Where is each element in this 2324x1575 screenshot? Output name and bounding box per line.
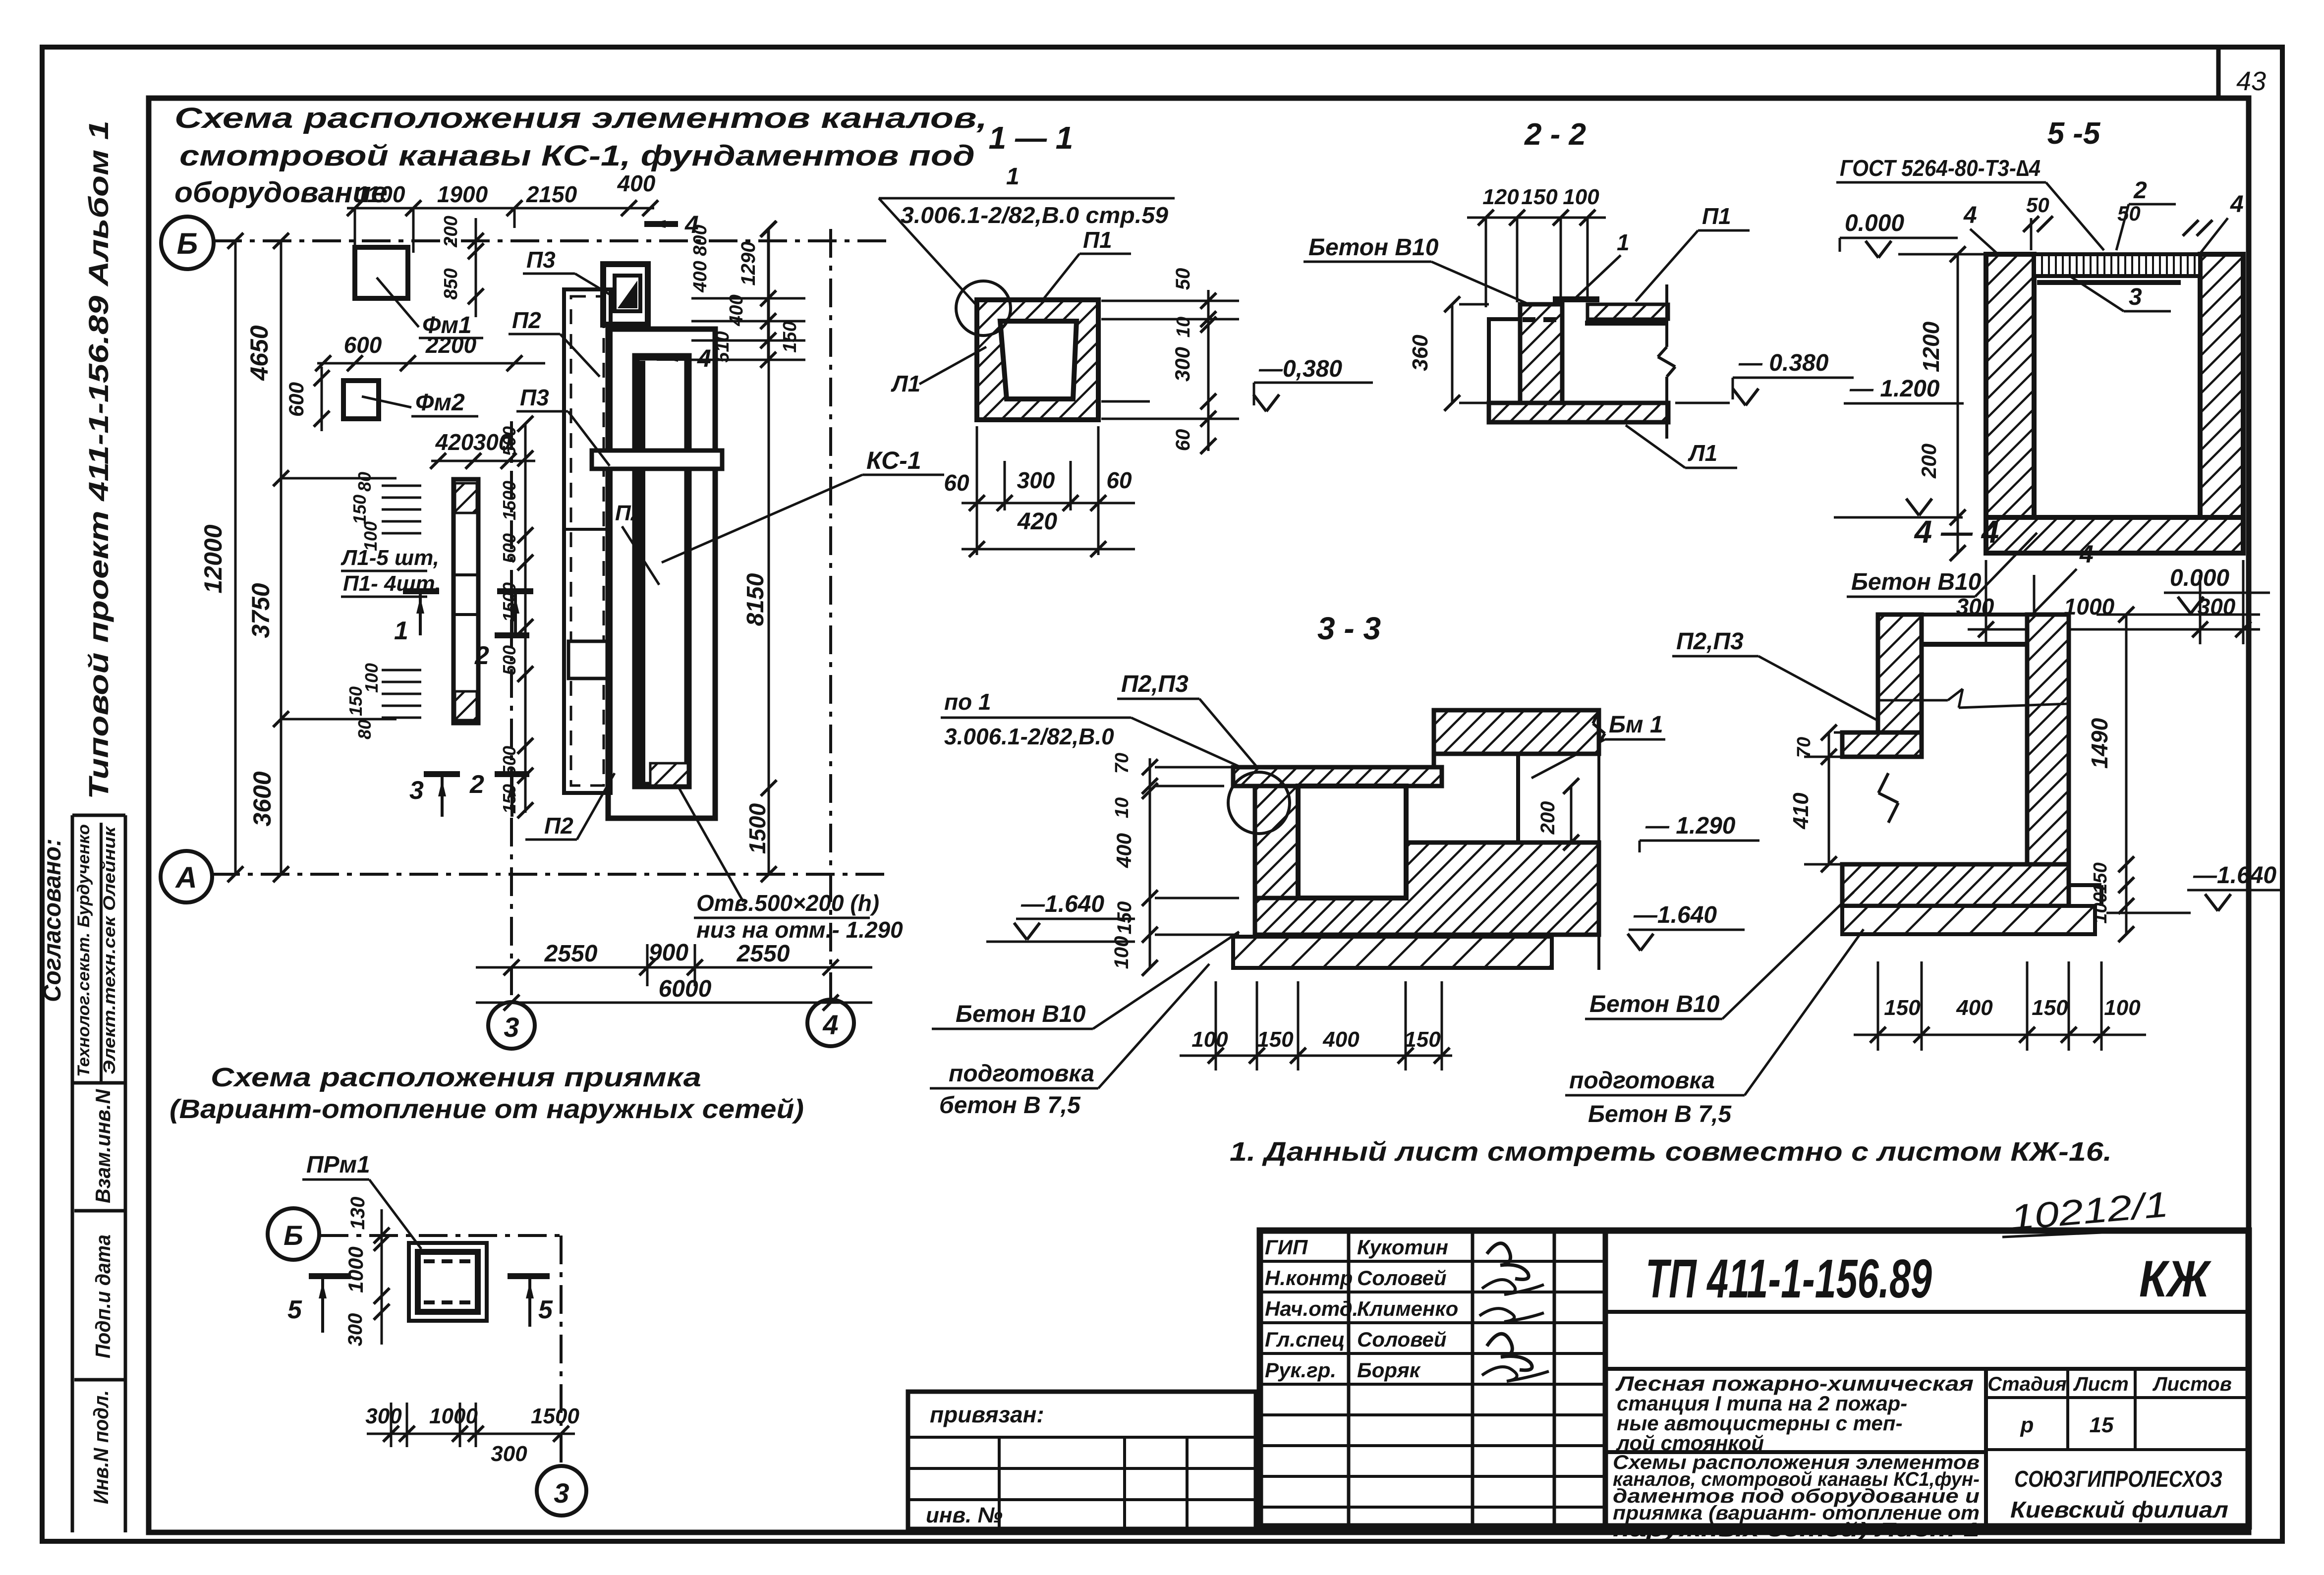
- section mark 1 right: [497, 588, 533, 594]
- label Фм2: [362, 396, 411, 407]
- svg-text:1: 1: [1006, 164, 1020, 190]
- stamp line under Лесная: [1605, 1450, 1986, 1454]
- svg-text:1500: 1500: [499, 481, 519, 520]
- priyamok axis 3 circle: [537, 1466, 586, 1516]
- svg-text:Фм2: Фм2: [415, 390, 465, 416]
- pit П3 square: [603, 264, 648, 325]
- priyamok pit: [409, 1243, 487, 1321]
- section 4-4 top slab line: [1922, 642, 2027, 647]
- svg-text:100: 100: [2104, 996, 2141, 1020]
- top dim chain line: [347, 207, 654, 210]
- svg-text:510: 510: [712, 331, 733, 362]
- svg-text:300: 300: [365, 1404, 402, 1428]
- svg-text:3: 3: [2129, 284, 2142, 310]
- section mark 2 lower: [495, 771, 529, 777]
- svg-text:300: 300: [344, 1313, 366, 1347]
- section 4-4 base: [1842, 906, 2095, 934]
- svg-text:Б: Б: [177, 227, 198, 260]
- section 4-4 left wall: [1878, 615, 1922, 736]
- section mark 3: [424, 771, 460, 777]
- svg-text:2150: 2150: [526, 181, 577, 207]
- svg-text:50: 50: [1172, 268, 1194, 290]
- section mark 2 upper: [495, 632, 529, 638]
- svg-text:Отв.500×200 (h): Отв.500×200 (h): [696, 890, 879, 916]
- svg-text:наружных сетей) Лист 1: наружных сетей) Лист 1: [1613, 1519, 1980, 1541]
- svg-text:10: 10: [1173, 317, 1194, 337]
- stamp signature verticals: [1347, 1231, 1351, 1526]
- priyamok section marks 5: [309, 1273, 351, 1279]
- svg-text:3600: 3600: [248, 771, 276, 826]
- svg-text:1490: 1490: [2087, 718, 2112, 769]
- axis А line: [211, 873, 887, 876]
- svg-text:—0,380: —0,380: [1258, 356, 1342, 382]
- section 2-2 bottom slab: [1489, 403, 1668, 422]
- svg-text:4650: 4650: [245, 325, 273, 381]
- svg-text:600: 600: [344, 332, 382, 358]
- section 1-1 walls: [977, 300, 1098, 420]
- svg-text:12000: 12000: [199, 524, 227, 593]
- stamp vertical 4007: [1984, 1369, 1988, 1526]
- dim line 12000: [234, 241, 237, 874]
- axis 4 circle: [807, 1000, 854, 1046]
- svg-text:300: 300: [491, 1442, 527, 1466]
- svg-text:4: 4: [2079, 540, 2094, 568]
- svg-text:Киевский филиал: Киевский филиал: [2010, 1497, 2228, 1522]
- section 3-3 base: [1233, 937, 1552, 968]
- svg-text:Технолог.секьт. Бурдученко: Технолог.секьт. Бурдученко: [74, 824, 93, 1077]
- foundation Фм1: [355, 247, 408, 298]
- right dim cluster extension lines: [691, 297, 805, 300]
- svg-text:П2: П2: [544, 813, 573, 839]
- dim chain 600 2200: [317, 362, 545, 365]
- svg-text:0.000: 0.000: [2170, 565, 2229, 591]
- dims left 3-3: [1149, 758, 1151, 968]
- svg-text:Бетон В 7,5: Бетон В 7,5: [1588, 1101, 1732, 1127]
- svg-text:П1: П1: [1702, 203, 1731, 229]
- svg-text:300: 300: [1171, 347, 1194, 382]
- mesh marks upper: [382, 485, 421, 487]
- svg-text:1500: 1500: [744, 803, 770, 854]
- section 4-4 right wall: [2027, 615, 2069, 864]
- section 2-2 break line: [1665, 284, 1668, 347]
- svg-text:Инв.N подл.: Инв.N подл.: [89, 1390, 113, 1504]
- section 3-3 detail circle: [1228, 772, 1290, 834]
- stamp row Р 15: [1986, 1448, 2249, 1451]
- svg-text:150: 150: [1257, 1027, 1294, 1052]
- svg-text:10: 10: [1112, 797, 1133, 818]
- svg-text:70: 70: [1794, 737, 1814, 758]
- svg-text:1500: 1500: [531, 1404, 579, 1428]
- svg-text:1100: 1100: [356, 181, 405, 207]
- svg-text:2550: 2550: [737, 941, 790, 967]
- svg-text:Бетон В10: Бетон В10: [1308, 234, 1439, 261]
- section 5-5 bottom slab: [1986, 517, 2243, 553]
- svg-text:200: 200: [1537, 801, 1559, 835]
- svg-text:Лист: Лист: [2073, 1373, 2129, 1395]
- dims 120 150 100 2-2: [1467, 217, 1606, 219]
- svg-text:Взам.инв.N: Взам.инв.N: [91, 1088, 114, 1203]
- svg-text:Бетон В10: Бетон В10: [956, 1001, 1086, 1027]
- dim 200 850 column: [475, 218, 477, 317]
- svg-text:4 — 4: 4 — 4: [1914, 514, 1999, 550]
- svg-text:Л1: Л1: [1688, 440, 1717, 466]
- svg-text:Типовой проект 411-1-156.89 Ал: Типовой проект 411-1-156.89 Альбом 1: [83, 120, 114, 799]
- svg-text:3: 3: [409, 776, 424, 805]
- section 4-4 break zigzag: [1878, 699, 1948, 702]
- svg-text:инв. №: инв. №: [926, 1503, 1003, 1527]
- svg-text:3 - 3: 3 - 3: [1317, 611, 1381, 646]
- svg-text:150: 150: [780, 321, 800, 352]
- svg-text:Подп.и дата: Подп.и дата: [91, 1235, 114, 1358]
- svg-text:5: 5: [538, 1295, 553, 1324]
- svg-text:Н.контр: Н.контр: [1265, 1266, 1353, 1290]
- svg-text:— 1.290: — 1.290: [1645, 813, 1736, 839]
- svg-text:ПРм1: ПРм1: [306, 1152, 370, 1178]
- svg-text:Бм 1: Бм 1: [1609, 712, 1663, 738]
- stamp line under ТП row: [1605, 1310, 2249, 1314]
- svg-text:1000: 1000: [429, 1404, 478, 1428]
- section mark 1 left: [403, 588, 439, 594]
- svg-text:8150: 8150: [742, 573, 769, 626]
- svg-text:1 — 1: 1 — 1: [989, 120, 1074, 156]
- svg-text:3.006.1-2/82,В.0 стр.59: 3.006.1-2/82,В.0 стр.59: [901, 202, 1168, 228]
- bottom dim chain 2550 900 2550: [476, 966, 872, 969]
- svg-text:410: 410: [1789, 792, 1813, 830]
- svg-text:Нач.отд.: Нач.отд.: [1265, 1297, 1358, 1320]
- svg-text:СОЮЗГИПРОЛЕСХОЗ: СОЮЗГИПРОЛЕСХОЗ: [2014, 1466, 2222, 1492]
- priyamok axis Б line: [320, 1234, 561, 1237]
- svg-text:П2: П2: [615, 501, 643, 525]
- section mark 4 lower: [657, 355, 690, 361]
- section 3-3 top slab: [1233, 767, 1442, 786]
- svg-text:Бетон В10: Бетон В10: [1851, 569, 1982, 595]
- svg-text:Элект.техн.сек Олейник: Элект.техн.сек Олейник: [100, 826, 119, 1074]
- privyazan rows: [908, 1436, 1256, 1439]
- stamp signatures scribbles: [1487, 1243, 1529, 1280]
- dim 1200 200 5-5: [1957, 254, 1959, 553]
- svg-text:Л1-5 шт,: Л1-5 шт,: [340, 546, 439, 570]
- svg-text:(Вариант-отопление от наружных: (Вариант-отопление от наружных сетей): [170, 1094, 804, 1124]
- svg-text:900: 900: [649, 940, 688, 966]
- svg-text:2: 2: [469, 770, 484, 799]
- svg-text:бетон В 7,5: бетон В 7,5: [939, 1092, 1081, 1119]
- svg-text:500: 500: [499, 746, 519, 776]
- svg-text:2550: 2550: [544, 941, 598, 967]
- sheet number box: [2216, 47, 2221, 98]
- stamp outer box: [1260, 1231, 2249, 1526]
- svg-text:Схема расположения элемент: Схема расположения элементов каналов,: [174, 102, 987, 134]
- svg-text:400: 400: [726, 294, 747, 326]
- svg-text:2: 2: [474, 641, 489, 670]
- svg-text:400: 400: [1956, 996, 1993, 1020]
- svg-text:1000: 1000: [344, 1246, 367, 1293]
- svg-text:ГОСТ 5264-80-Т3-∆4: ГОСТ 5264-80-Т3-∆4: [1840, 155, 2041, 181]
- margin table lines: [71, 815, 74, 1532]
- svg-text:подготовка: подготовка: [1569, 1068, 1715, 1094]
- section 3-3 right upper band: [1434, 710, 1599, 754]
- privyazan box: [908, 1392, 1256, 1529]
- ladder Л1 strip: [453, 479, 478, 723]
- svg-text:150: 150: [2090, 862, 2111, 894]
- svg-text:150: 150: [1404, 1027, 1441, 1052]
- svg-text:П1: П1: [1083, 227, 1112, 253]
- svg-text:низ на отм.- 1.290: низ на отм.- 1.290: [696, 917, 903, 943]
- svg-text:П3: П3: [526, 247, 556, 273]
- svg-text:420: 420: [1017, 508, 1057, 535]
- svg-text:60: 60: [1106, 467, 1132, 493]
- svg-text:Гл.спец: Гл.спец: [1265, 1328, 1345, 1351]
- svg-text:Л1: Л1: [891, 371, 920, 396]
- svg-text:150: 150: [349, 495, 370, 524]
- svg-text:150: 150: [1521, 185, 1558, 209]
- section 3-3 lower mass: [1255, 843, 1599, 935]
- svg-text:П2: П2: [512, 307, 541, 333]
- svg-text:—1.640: —1.640: [1633, 902, 1717, 928]
- section 3-3 channel void: [1298, 786, 1406, 898]
- svg-text:50: 50: [2117, 202, 2141, 225]
- axis 4 line: [829, 229, 832, 1000]
- section 4-4 bottom dims: [1854, 1034, 2146, 1036]
- svg-text:400: 400: [1322, 1027, 1360, 1052]
- svg-text:Бетон В10: Бетон В10: [1589, 991, 1720, 1017]
- axis 3 line: [510, 421, 513, 1003]
- dims left 4-4: [1828, 732, 1830, 864]
- svg-text:420: 420: [435, 429, 474, 455]
- svg-text:4: 4: [697, 344, 711, 372]
- svg-text:3: 3: [504, 1012, 519, 1043]
- section 1-1 bottom dims: [962, 502, 1135, 505]
- svg-text:1200: 1200: [1918, 321, 1944, 372]
- axis Б line: [213, 239, 887, 242]
- svg-text:подготовка: подготовка: [949, 1061, 1094, 1087]
- section 1-1 top slab: [979, 301, 1094, 319]
- svg-text:3750: 3750: [247, 583, 275, 638]
- axis 3 circle: [488, 1002, 535, 1049]
- svg-text:— 0.380: — 0.380: [1738, 350, 1829, 376]
- section 3-3 right wall lines: [1516, 754, 1520, 843]
- svg-text:Клименко: Клименко: [1357, 1297, 1458, 1320]
- svg-text:—1.640: —1.640: [1020, 891, 1104, 917]
- svg-text:Рук.гр.: Рук.гр.: [1265, 1358, 1336, 1382]
- svg-text:4: 4: [822, 1009, 838, 1040]
- dims right 3-3: [1570, 786, 1573, 843]
- svg-text:2 - 2: 2 - 2: [1524, 117, 1586, 152]
- crossing bar: [592, 450, 722, 469]
- svg-text:Стадия: Стадия: [1987, 1373, 2066, 1395]
- label Фм1: [377, 278, 419, 327]
- svg-text:130: 130: [347, 1197, 369, 1230]
- section 3-3 break right: [1593, 710, 1599, 724]
- svg-text:А: А: [174, 861, 197, 894]
- svg-text:500: 500: [499, 426, 519, 456]
- svg-text:6000: 6000: [659, 976, 712, 1002]
- dim 600 vertical: [321, 367, 323, 431]
- priyamok axis Б circle: [268, 1208, 319, 1260]
- svg-text:100: 100: [1563, 185, 1599, 209]
- dim chain 500 1500 x1060: [524, 424, 527, 813]
- svg-text:— 1.200: — 1.200: [1849, 376, 1940, 402]
- section 4-4 bottom slab: [1842, 864, 2069, 906]
- section 5-5 right wall: [2200, 254, 2243, 517]
- svg-text:500: 500: [499, 533, 519, 563]
- svg-text:150: 150: [499, 784, 519, 814]
- svg-text:5 -5: 5 -5: [2047, 116, 2101, 151]
- foundation Фм2: [343, 381, 379, 419]
- section 5-5 left wall: [1986, 254, 2034, 517]
- svg-text:200: 200: [441, 216, 461, 247]
- svg-text:600: 600: [284, 382, 308, 417]
- stamp header Стадия Лист Листов: [1986, 1396, 2249, 1399]
- svg-text:100: 100: [360, 521, 381, 551]
- svg-text:р: р: [2020, 1413, 2034, 1437]
- svg-text:КЖ: КЖ: [2139, 1250, 2212, 1308]
- svg-text:3.006.1-2/82,В.0: 3.006.1-2/82,В.0: [944, 724, 1114, 749]
- canal outer wall: [608, 329, 715, 818]
- svg-text:0.000: 0.000: [1845, 210, 1904, 236]
- section 2-2 plate П1: [1587, 304, 1668, 319]
- svg-text:300: 300: [1017, 467, 1055, 493]
- priyamok vertical dims: [381, 1209, 383, 1345]
- mesh marks lower: [382, 669, 421, 672]
- svg-text:2200: 2200: [425, 332, 477, 358]
- svg-text:Схема расположения приямка: Схема расположения приямка: [211, 1063, 701, 1092]
- svg-text:360: 360: [1408, 335, 1432, 371]
- privyazan columns: [998, 1437, 1001, 1529]
- svg-text:200: 200: [1917, 444, 1940, 479]
- svg-text:15: 15: [2090, 1413, 2114, 1437]
- svg-text:Кукотин: Кукотин: [1357, 1236, 1448, 1259]
- priyamok bottom dims: [367, 1433, 575, 1435]
- axis Б circle: [161, 217, 214, 269]
- svg-text:5: 5: [287, 1295, 302, 1324]
- svg-text:150: 150: [2032, 996, 2068, 1020]
- svg-text:150: 150: [1884, 996, 1921, 1020]
- svg-text:П3: П3: [520, 385, 549, 410]
- section mark 4 upper: [644, 221, 678, 227]
- section 2-2 hatched column: [1520, 304, 1562, 403]
- dim 6000: [476, 1002, 872, 1004]
- svg-text:1500: 1500: [499, 582, 519, 622]
- svg-text:100: 100: [1191, 1027, 1228, 1052]
- svg-text:2: 2: [2133, 177, 2147, 204]
- canal trench bottom hatch: [650, 763, 688, 786]
- section 1-1 detail circle: [956, 281, 1011, 336]
- svg-text:4: 4: [2230, 191, 2244, 218]
- svg-text:43: 43: [2236, 66, 2266, 96]
- svg-text:850: 850: [441, 268, 461, 299]
- svg-text:Листов: Листов: [2152, 1373, 2232, 1395]
- svg-text:Соловей: Соловей: [1357, 1266, 1447, 1290]
- svg-text:60: 60: [944, 470, 969, 496]
- break mark left 4-4: [1878, 773, 1888, 793]
- svg-text:1. Данный лист смотреть: 1. Данный лист смотреть совместно с лист…: [1230, 1137, 2112, 1167]
- svg-text:800: 800: [690, 225, 711, 256]
- section 3-3 bottom dims: [1180, 1055, 1452, 1057]
- svg-text:ГИП: ГИП: [1265, 1236, 1308, 1259]
- svg-text:120: 120: [1482, 185, 1519, 209]
- svg-text:50: 50: [2026, 193, 2049, 217]
- svg-text:80: 80: [354, 472, 375, 492]
- svg-text:Согласовано:: Согласовано:: [38, 839, 66, 1002]
- svg-text:Боряк: Боряк: [1357, 1358, 1421, 1382]
- svg-text:400: 400: [690, 261, 711, 292]
- svg-text:смотровой канавы КС-1, ф: смотровой канавы КС-1, фундаментов под: [179, 140, 975, 172]
- svg-text:1: 1: [394, 617, 408, 645]
- svg-text:ТП 411-1-156.89: ТП 411-1-156.89: [1645, 1248, 1932, 1309]
- svg-text:60: 60: [1172, 429, 1194, 451]
- section 2-2 left block: [1489, 319, 1520, 403]
- axis А circle: [161, 851, 212, 902]
- stamp signature rows: [1260, 1260, 1605, 1263]
- priyamok axis 3 line: [560, 1236, 563, 1466]
- svg-text:по 1: по 1: [944, 689, 991, 715]
- section 5-5 bottom dims: [1968, 628, 2260, 631]
- section 3-3 left wall: [1255, 786, 1298, 898]
- section 2-2 anchor bar: [1553, 296, 1599, 302]
- svg-text:П2,П3: П2,П3: [1676, 628, 1744, 655]
- svg-text:1900: 1900: [437, 181, 488, 207]
- svg-text:500: 500: [499, 645, 519, 675]
- svg-text:400: 400: [617, 170, 656, 196]
- svg-text:150: 150: [345, 686, 366, 716]
- svg-text:Б: Б: [283, 1220, 303, 1251]
- svg-text:1: 1: [1617, 229, 1630, 255]
- svg-text:оборудование: оборудование: [174, 176, 388, 209]
- svg-text:3: 3: [554, 1477, 569, 1509]
- svg-text:100: 100: [2090, 892, 2111, 923]
- dims right of 1-1: [1207, 290, 1210, 451]
- svg-text:привязан:: привязан:: [930, 1402, 1044, 1427]
- stamp line above desc: [1605, 1367, 2249, 1371]
- svg-text:400: 400: [1112, 833, 1135, 868]
- svg-text:П2,П3: П2,П3: [1121, 671, 1189, 697]
- svg-text:Соловей: Соловей: [1357, 1328, 1447, 1351]
- dim 360 2-2: [1451, 304, 1454, 403]
- section 5-5 cover plate: [2034, 254, 2200, 276]
- canal trench: [636, 357, 688, 786]
- svg-text:80: 80: [354, 720, 375, 739]
- dim chain 4650-3750-3600: [280, 241, 283, 874]
- svg-text:—1.640: —1.640: [2193, 862, 2276, 889]
- section 4-4 ledge: [1842, 732, 1922, 757]
- svg-text:1290: 1290: [737, 242, 759, 286]
- canal slab column dashed: [564, 289, 611, 793]
- svg-text:4: 4: [1963, 202, 1977, 228]
- canal slab break: [568, 641, 611, 678]
- svg-text:КС-1: КС-1: [866, 447, 921, 474]
- dim 420 300: [431, 460, 535, 462]
- dim 8150 1500 line: [768, 229, 770, 874]
- svg-text:70: 70: [1112, 753, 1133, 774]
- dims right 4-4: [2125, 615, 2128, 934]
